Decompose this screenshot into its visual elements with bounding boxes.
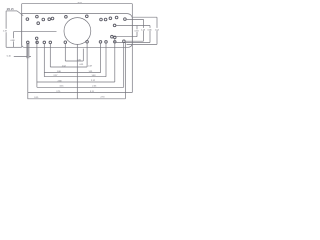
extension line down from L	[114, 39, 116, 83]
bottom hole F1 upper	[35, 37, 38, 40]
small hole D1 with extension right	[111, 35, 114, 38]
top-left label underline leader	[6, 10, 17, 12]
bracket level 7 dimension line	[28, 92, 133, 94]
extension line down from H1	[49, 44, 51, 68]
bracket level 4 dimension line	[44, 76, 106, 78]
plate outline	[22, 14, 133, 48]
extension line down from K1	[100, 43, 102, 73]
extension line down from J1	[86, 43, 88, 67]
small hole A4	[42, 18, 45, 21]
bottom hole E1 with tangent lines	[27, 41, 30, 44]
horizontal centerline through plate	[13, 31, 56, 33]
small dimension line at hole E1	[14, 56, 31, 58]
center extension line down from big circle	[76, 44, 78, 98]
extension line down from I1	[64, 43, 66, 61]
small hole B1 (left of big circle)	[65, 15, 68, 18]
svg-text:1.23: 1.23	[141, 29, 146, 31]
small hole C5 with extension right	[113, 24, 116, 27]
bottom hole I1	[64, 41, 67, 44]
extension line down from M1	[123, 42, 125, 87]
extension line down at M2	[124, 42, 126, 98]
svg-text:0.10: 0.10	[7, 56, 12, 58]
bracket level 6 dimension line	[37, 86, 124, 88]
svg-text:0.88: 0.88	[11, 40, 16, 42]
right chained vertical dimension 1	[136, 26, 138, 37]
left vertical dimension line 0.88	[12, 32, 14, 48]
extension line down from E1 center to deepest bracket	[27, 44, 29, 99]
extension line down from K2	[105, 43, 107, 77]
extension line right from C4	[126, 18, 144, 20]
bracket level 8 dimension line	[28, 98, 126, 100]
extension line down from F	[36, 39, 38, 87]
svg-text:0.31: 0.31	[80, 64, 85, 66]
extension right at bottom holes row	[127, 43, 157, 45]
bottom hole K2	[105, 41, 108, 44]
top overall dimension line	[22, 3, 133, 5]
right extension line (plate right edge extended)	[131, 4, 133, 93]
left extension line (plate left edge, full: dim to deepest bracket)	[21, 4, 23, 48]
small hole A3	[37, 22, 40, 25]
right chained vertical dimension 2	[143, 19, 145, 41]
svg-text:1.54: 1.54	[155, 29, 160, 31]
bracket level 5 dimension line	[37, 81, 115, 83]
small hole C3b	[115, 16, 118, 19]
bottom hole H1	[49, 41, 52, 44]
right chained vertical dimension 4	[156, 17, 158, 44]
bottom hole F2 lower	[36, 41, 39, 44]
extension stub above bracket level 1 right end	[82, 49, 84, 61]
bottom hole J1	[86, 41, 89, 44]
big circle	[64, 18, 91, 45]
right chained vertical dimension 3	[149, 26, 151, 43]
small hole A6	[51, 17, 54, 20]
extension line down from G1	[43, 43, 45, 76]
small hole C3	[109, 17, 112, 20]
svg-text:Ø0.25: Ø0.25	[7, 8, 14, 11]
bottom hole L2 lower	[114, 41, 117, 44]
svg-text:2.70: 2.70	[101, 97, 106, 99]
extension line right from C5	[116, 25, 150, 27]
extension line right from top-right corner	[132, 16, 157, 18]
bottom hole K1	[99, 41, 102, 44]
svg-text:1.19: 1.19	[3, 31, 8, 33]
small hole A2	[36, 15, 39, 18]
small hole A1	[26, 18, 29, 21]
extension line right from D1	[113, 36, 137, 38]
left vertical dimension line 2.06	[5, 11, 7, 47]
small hole A5	[48, 18, 51, 21]
small hole C1	[100, 18, 103, 21]
extension right from M1	[125, 40, 143, 42]
svg-text:0.57: 0.57	[88, 65, 93, 67]
bottom hole M1 with extension right	[123, 40, 126, 43]
svg-text:0.63: 0.63	[135, 31, 140, 33]
tangent extension lines of E1	[27, 43, 29, 58]
extension right from L2	[116, 42, 150, 44]
bottom hole L1 upper	[114, 36, 117, 39]
svg-text:0.96: 0.96	[148, 29, 153, 31]
bottom hole G1	[43, 41, 46, 44]
bracket level 2 dimension line	[50, 66, 87, 68]
top-left leader diagonal to corner	[17, 11, 23, 16]
bracket level 3 dimension line	[44, 72, 100, 74]
bottom edge extension to the left	[6, 46, 22, 48]
bracket level 1 dimension line	[65, 60, 83, 62]
small hole B2 (right of big circle)	[86, 15, 89, 18]
small hole C2	[104, 18, 107, 21]
small hole C4 with extension right	[124, 18, 127, 21]
